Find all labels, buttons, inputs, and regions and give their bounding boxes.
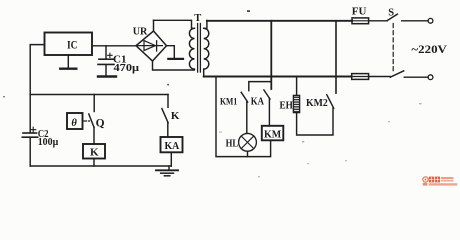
svg-text:FU: FU [352,6,367,17]
svg-text:K: K [90,147,99,159]
svg-text:HL: HL [226,138,239,149]
svg-text:S: S [388,8,394,19]
svg-text:UR: UR [133,27,148,38]
svg-text:IC: IC [67,37,78,51]
svg-text:T: T [194,13,201,24]
svg-text:EH: EH [280,101,294,112]
svg-text:KM: KM [264,129,281,140]
svg-text:KM1: KM1 [220,97,237,107]
svg-text:θ: θ [71,118,77,129]
svg-text:KM2: KM2 [306,98,328,109]
svg-text:~220V: ~220V [411,42,447,56]
svg-text:K: K [171,110,180,122]
svg-text:Q: Q [96,118,105,130]
svg-text:100μ: 100μ [38,137,59,148]
svg-text:470μ: 470μ [114,63,140,74]
svg-text:KA: KA [251,97,265,108]
svg-text:KA: KA [165,140,180,152]
